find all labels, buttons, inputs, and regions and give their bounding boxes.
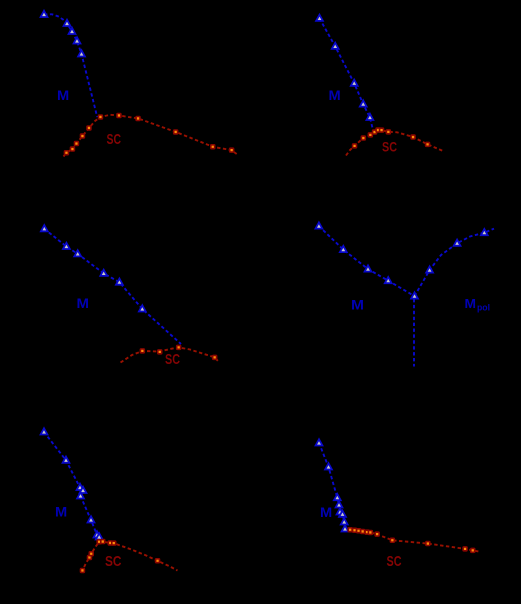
svg-text:M: M [329, 87, 341, 103]
svg-text:M: M [465, 296, 477, 311]
svg-text:SC: SC [105, 553, 122, 570]
svg-text:M: M [55, 504, 67, 520]
svg-text:SC: SC [387, 553, 402, 570]
svg-text:M: M [351, 297, 364, 313]
svg-text:M: M [57, 87, 69, 103]
svg-text:M: M [77, 295, 90, 311]
svg-text:SC: SC [165, 351, 180, 368]
svg-text:SC: SC [107, 131, 122, 148]
svg-text:SC: SC [382, 139, 397, 155]
svg-text:M: M [320, 504, 332, 520]
svg-text:pol: pol [477, 303, 490, 313]
